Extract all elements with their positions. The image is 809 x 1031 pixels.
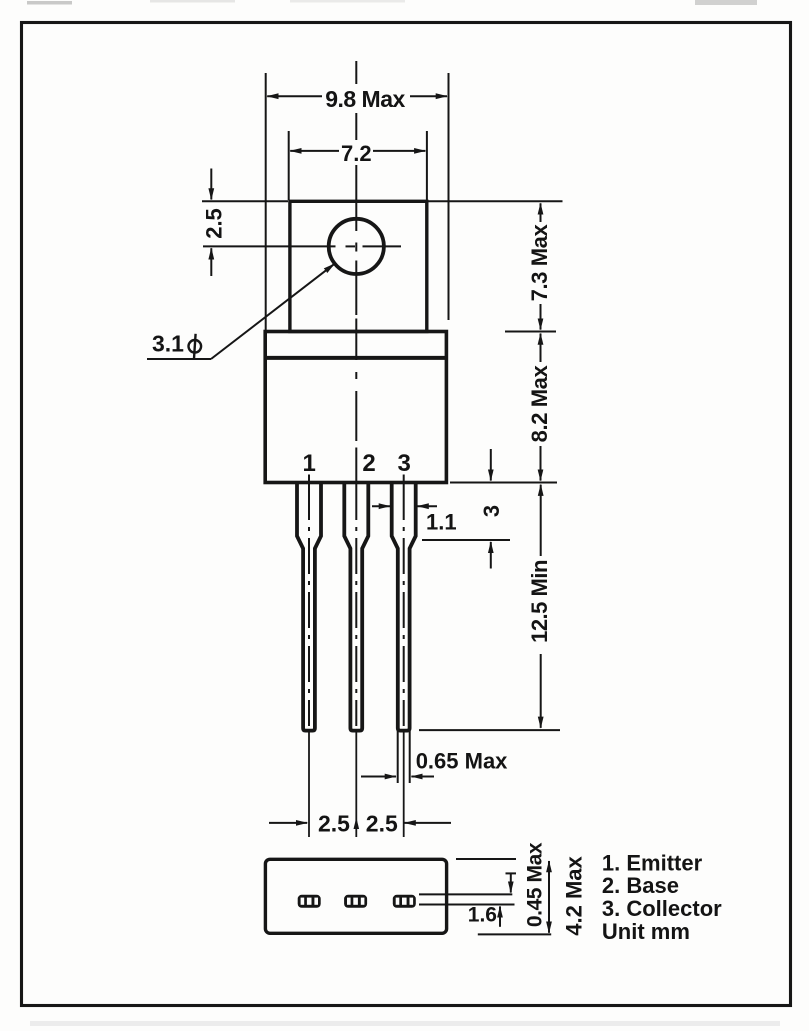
lead 1 lower extension line <box>308 732 310 837</box>
scan artifact marks top edge <box>27 0 757 5</box>
dimension 7.2 arrows <box>290 150 339 152</box>
svg-text:1.1: 1.1 <box>426 510 457 535</box>
lead 3 lower extension line <box>403 732 405 837</box>
svg-text:12.5 Min: 12.5 Min <box>527 560 552 643</box>
bottom view lead 3 section <box>393 895 416 908</box>
hole horizontal centerline <box>203 245 401 247</box>
svg-text:1. Emitter: 1. Emitter <box>602 850 703 875</box>
svg-text:2. Base: 2. Base <box>602 873 679 898</box>
bottom view outline <box>265 859 446 933</box>
svg-text:Unit mm: Unit mm <box>602 919 690 944</box>
dimension 12.5 Min arrows <box>540 485 542 556</box>
dimension 0.45 Max arrow <box>510 873 512 892</box>
lead 3 centerline <box>403 475 405 483</box>
svg-text:3: 3 <box>398 450 411 477</box>
svg-text:1.6: 1.6 <box>468 903 497 926</box>
svg-text:3. Collector: 3. Collector <box>602 896 722 921</box>
scan artifact band bottom edge <box>30 1021 780 1026</box>
lead 3 edge extension lines <box>397 731 399 783</box>
svg-text:0.45 Max: 0.45 Max <box>523 842 546 927</box>
dimension 3 shoulder arrows <box>490 449 492 481</box>
lead 1 centerline <box>308 475 310 483</box>
svg-text:2.5: 2.5 <box>202 208 227 239</box>
svg-text:3: 3 <box>479 505 504 517</box>
svg-text:0.65 Max: 0.65 Max <box>416 749 508 774</box>
dimension 9.8 Max extension lines <box>265 73 267 331</box>
lead 2 lower extension line <box>355 732 357 837</box>
dimension 1.6 arrow <box>499 906 501 926</box>
dimension 2.5 hole offset arrows <box>210 169 212 200</box>
lead surface lower extension line <box>419 904 515 906</box>
svg-text:2: 2 <box>362 450 375 477</box>
dimension 7.2 extension lines <box>288 131 290 200</box>
lead 1 outline <box>297 484 321 731</box>
svg-text:8.2 Max: 8.2 Max <box>527 364 552 442</box>
dimension 8.2 Max arrows <box>540 334 542 363</box>
lead end extension line <box>419 729 560 731</box>
bottom view bottom extension line <box>478 933 551 935</box>
lead 2 centerline <box>355 484 357 726</box>
lead surface upper extension line <box>419 893 512 895</box>
dimension 3 shoulder extension line <box>422 539 510 541</box>
dimension 7.3 Max extension lines <box>428 200 563 202</box>
dimension 4.2 Max arrows <box>548 861 550 896</box>
label 3.1 dia leader arrow <box>211 264 335 359</box>
label 3.1 dia phi symbol <box>189 334 202 359</box>
body step line <box>265 356 446 360</box>
svg-text:3.1: 3.1 <box>152 331 184 357</box>
label 3.1 dia underline <box>147 358 211 360</box>
svg-text:4.2 Max: 4.2 Max <box>562 855 587 935</box>
bottom view lead 1 section <box>298 895 321 908</box>
bottom view top extension line <box>456 858 516 860</box>
dimension 2.5 hole offset extension line <box>202 200 288 202</box>
svg-text:1: 1 <box>303 450 316 477</box>
lead 2 outline <box>344 484 368 731</box>
dimension 2.5 2.5 center tick <box>354 818 360 830</box>
package tab outline <box>290 201 427 331</box>
bottom view lead 2 section <box>344 895 367 908</box>
svg-text:7.3 Max: 7.3 Max <box>527 223 552 301</box>
svg-text:2.5: 2.5 <box>366 811 398 837</box>
svg-text:9.8 Max: 9.8 Max <box>325 86 405 112</box>
dimension 7.3 Max arrows <box>540 203 542 222</box>
dimension 9.8 Max arrows <box>267 95 322 97</box>
package body outline <box>265 332 446 483</box>
dimension 2.5 2.5 lead pitch arrows <box>269 822 307 824</box>
body bottom extension line <box>450 482 557 484</box>
svg-text:7.2: 7.2 <box>341 141 372 166</box>
svg-text:2.5: 2.5 <box>318 811 350 837</box>
vertical centerline of package <box>355 61 357 483</box>
dimension 0.65 Max arrows <box>361 776 396 778</box>
dimension 1.1 lead width arrows <box>372 505 390 507</box>
lead 3 outline <box>392 484 416 731</box>
mounting hole <box>329 219 384 274</box>
